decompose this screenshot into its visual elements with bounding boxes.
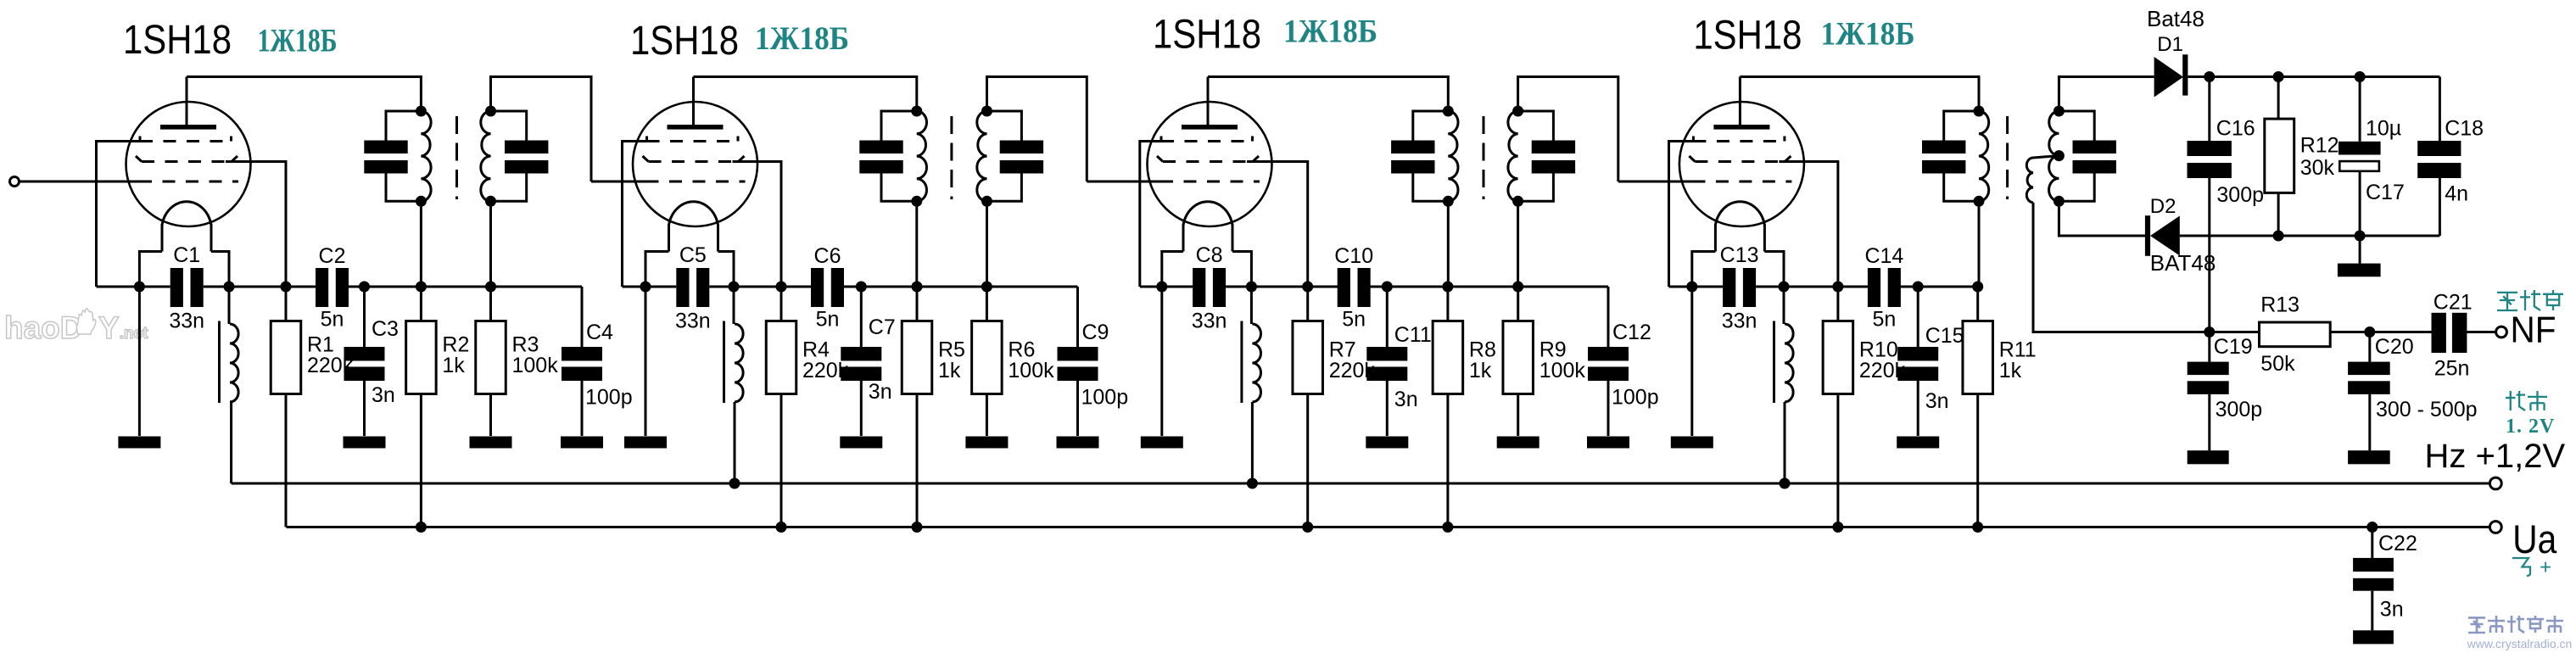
transformer T2 secondary winding bbox=[977, 111, 987, 201]
capacitor C5 (filament bypass) bbox=[676, 268, 689, 307]
svg-text:C22: C22 bbox=[2378, 532, 2417, 555]
label to-AF (Chinese) teal bbox=[2497, 293, 2517, 310]
svg-text:1Ж18Б: 1Ж18Б bbox=[258, 23, 338, 59]
svg-text:4n: 4n bbox=[2445, 182, 2468, 206]
svg-text:C6: C6 bbox=[814, 244, 841, 268]
svg-text:Hz +1,2V: Hz +1,2V bbox=[2425, 438, 2566, 475]
wire C17 node to ground bbox=[2359, 236, 2361, 264]
ground at C8 left node bbox=[1141, 437, 1183, 449]
svg-text:C16: C16 bbox=[2216, 116, 2255, 140]
svg-text:33n: 33n bbox=[675, 310, 711, 333]
svg-text:C2: C2 bbox=[319, 244, 346, 268]
resistor R8 1k bbox=[1433, 321, 1463, 394]
wire plate V3 to T3 primary top bbox=[1208, 77, 1448, 112]
wire filament left leg V2 bbox=[645, 252, 669, 287]
wire R11 bottom to Ua rail bbox=[1976, 394, 1979, 527]
wire filament right leg V3 bbox=[1232, 252, 1251, 287]
capacitor C1 (filament bypass) bbox=[170, 268, 183, 307]
ground below C9 bbox=[1057, 437, 1099, 449]
wire g2 of V2 down to grid-leak node bbox=[733, 162, 782, 287]
svg-text:D1: D1 bbox=[2157, 33, 2183, 56]
tube V4 1SH18 envelope bbox=[1679, 102, 1804, 226]
svg-text:C10: C10 bbox=[1334, 244, 1373, 268]
junction dots T4 bbox=[1974, 106, 1985, 117]
capacitor C16 300p bbox=[2208, 77, 2210, 142]
svg-text:haoD: haoD bbox=[4, 310, 83, 345]
svg-text:220k: 220k bbox=[802, 359, 849, 382]
transformer T1 secondary tuning capacitor bbox=[491, 111, 527, 141]
wire plate V2 to T2 primary top bbox=[694, 77, 917, 112]
junction dots detector bbox=[2204, 71, 2215, 82]
capacitor C6 (coupling 5n) bbox=[811, 268, 824, 307]
svg-text:1Ж18Б: 1Ж18Б bbox=[1821, 15, 1915, 52]
wire plate V1 to T1 primary top bbox=[187, 77, 421, 112]
capacitor C17 10u electrolytic bbox=[2359, 77, 2361, 142]
svg-text:1SH18: 1SH18 bbox=[1693, 12, 1802, 58]
wire g1 of V4 to cathode rail bbox=[1669, 142, 1700, 287]
resistor R4 220k bbox=[766, 321, 796, 394]
resistor R12 30k bbox=[2265, 119, 2294, 193]
svg-text:1SH18: 1SH18 bbox=[1153, 11, 1261, 57]
tube V2 anode (plate) bbox=[668, 125, 724, 130]
diode D1 Bat48 bbox=[2154, 57, 2183, 98]
svg-text:D2: D2 bbox=[2150, 195, 2176, 218]
ground below C17 bbox=[2338, 264, 2381, 277]
svg-text:50k: 50k bbox=[2260, 352, 2295, 376]
wire filament left leg V3 bbox=[1162, 252, 1183, 287]
junction dots T3 bbox=[1443, 106, 1454, 117]
svg-text:C7: C7 bbox=[869, 315, 896, 339]
wire g3 input of V3 bbox=[1087, 181, 1160, 183]
wire T1 primary bottom bbox=[420, 201, 422, 287]
transformer T3 secondary tuning capacitor bbox=[1518, 111, 1554, 141]
tube V3 grid g1 (dashed) bbox=[1161, 140, 1253, 142]
svg-text:1k: 1k bbox=[938, 359, 961, 382]
svg-text:5n: 5n bbox=[1342, 308, 1366, 332]
svg-text:C20: C20 bbox=[2375, 335, 2414, 359]
wire g2 of V4 down to grid-leak node bbox=[1779, 162, 1838, 287]
svg-text:+: + bbox=[2540, 556, 2551, 579]
transformer T2 core bbox=[950, 116, 953, 199]
svg-text:220k: 220k bbox=[1329, 359, 1376, 382]
svg-text:C19: C19 bbox=[2214, 335, 2253, 359]
wire T1 secondary bottom bbox=[489, 201, 492, 287]
wire filament right leg V2 bbox=[718, 252, 735, 287]
wire choke L4 to Hz rail bbox=[1784, 402, 1786, 483]
wire dot1 to ground stage 4 bbox=[1690, 287, 1693, 436]
resistor R3 100k bbox=[476, 321, 506, 394]
svg-text:220k: 220k bbox=[1859, 359, 1906, 382]
tube V1 grid g1 (dashed) bbox=[140, 140, 232, 142]
svg-text:R12: R12 bbox=[2300, 134, 2339, 158]
transformer T2 primary winding bbox=[917, 111, 927, 201]
svg-text:1SH18: 1SH18 bbox=[123, 17, 232, 63]
wire D2 anode to detector bottom rail bbox=[2180, 235, 2440, 237]
transformer T3 secondary winding bbox=[1508, 111, 1518, 201]
filament choke L3 bbox=[1250, 287, 1253, 324]
svg-text:100k: 100k bbox=[512, 354, 559, 377]
wire g3 input of V2 bbox=[591, 181, 646, 183]
svg-text:C17: C17 bbox=[2366, 181, 2405, 204]
wire cathode/B+ rail stage 3 bbox=[1140, 286, 1193, 288]
capacitor C4 100p bbox=[581, 287, 584, 347]
tube V3 grid g3 (dashed) bbox=[1160, 181, 1260, 183]
tube V3 plate lead bbox=[1207, 77, 1210, 127]
svg-text:1. 2V: 1. 2V bbox=[2506, 416, 2555, 438]
tube V1 grid g3 (dashed) bbox=[139, 181, 238, 183]
wire g2 of V3 down to grid-leak node bbox=[1247, 162, 1308, 287]
transformer T4 secondary tuning capacitor bbox=[2059, 111, 2094, 141]
ground below C3 bbox=[344, 437, 386, 449]
capacitor C21 25n bbox=[2370, 331, 2432, 333]
filament choke L2 bbox=[733, 287, 735, 324]
svg-text:5n: 5n bbox=[816, 308, 840, 332]
wire cathode/B+ rail stage 4 bbox=[1669, 286, 1724, 288]
svg-text:C9: C9 bbox=[1082, 321, 1109, 344]
svg-text:C15: C15 bbox=[1925, 324, 1964, 348]
tube V3 grid g2 (dashed) bbox=[1163, 160, 1253, 163]
capacitor C20 300-500p bbox=[2368, 332, 2371, 362]
wire T3 primary bottom bbox=[1447, 201, 1450, 287]
ground below C11 bbox=[1366, 437, 1408, 449]
transformer T4 secondary winding (tapped) bbox=[2049, 111, 2059, 156]
junction dot NF node bbox=[2204, 326, 2215, 338]
Hz terminal bbox=[2489, 477, 2501, 489]
tube V2 filament bbox=[669, 202, 718, 226]
svg-text:10µ: 10µ bbox=[2366, 116, 2401, 140]
capacitor C7 3n bbox=[860, 287, 863, 347]
tube V1 filament bbox=[162, 202, 211, 226]
wire T2 primary bottom bbox=[915, 201, 918, 287]
svg-text:30k: 30k bbox=[2300, 156, 2335, 180]
NF output terminal bbox=[2496, 326, 2507, 338]
transformer T1 primary tuning capacitor bbox=[386, 111, 421, 141]
svg-text:C3: C3 bbox=[372, 317, 399, 341]
ground below C15 bbox=[1897, 437, 1939, 449]
wire T3 secondary bottom bbox=[1517, 201, 1519, 287]
capacitor C12 100p bbox=[1607, 287, 1610, 347]
tube V4 grid g2 (dashed) bbox=[1695, 160, 1785, 163]
svg-text:Ua: Ua bbox=[2512, 516, 2557, 561]
tube V3 anode (plate) bbox=[1182, 125, 1238, 130]
transformer T4 core bbox=[2006, 116, 2009, 199]
tube V1 grid g2 (dashed) bbox=[142, 160, 232, 163]
transformer T1 core bbox=[455, 116, 458, 199]
junction dots stage 2 bbox=[640, 282, 651, 293]
wire T2 secondary bottom bbox=[986, 201, 988, 287]
tube V3 1SH18 envelope bbox=[1148, 102, 1272, 226]
tube V4 plate lead bbox=[1739, 77, 1741, 127]
label yi+ (Chinese) teal bbox=[2512, 558, 2530, 576]
junction dots stage 1 bbox=[134, 282, 145, 293]
wire R7 bottom to Ua rail bbox=[1306, 394, 1309, 527]
watermark crystalradio (decorative) bbox=[2468, 617, 2485, 633]
Ua terminal bbox=[2489, 522, 2501, 533]
wire filament left leg V4 bbox=[1692, 252, 1716, 287]
transformer T1 primary winding bbox=[421, 111, 431, 201]
wire cathode/B+ rail stage 1 bbox=[97, 286, 170, 288]
ground at C13 left node bbox=[1671, 437, 1713, 449]
resistor R5 1k bbox=[902, 321, 932, 394]
wire filament right leg V4 bbox=[1764, 252, 1784, 287]
svg-text:1SH18: 1SH18 bbox=[630, 18, 739, 64]
resistor R13 50k bbox=[2260, 322, 2331, 347]
svg-text:C12: C12 bbox=[1612, 321, 1651, 344]
svg-text:Bat48: Bat48 bbox=[2147, 6, 2204, 31]
svg-text:5n: 5n bbox=[321, 308, 344, 332]
wire dot1 to ground stage 1 bbox=[138, 287, 141, 436]
resistor R2 1k bbox=[406, 321, 437, 394]
junction dots stage 3 bbox=[1156, 282, 1167, 293]
tube V2 grid g3 (dashed) bbox=[646, 181, 746, 183]
tube V3 filament bbox=[1183, 202, 1232, 226]
wire dot1 to ground stage 3 bbox=[1160, 287, 1163, 436]
tube V2 plate lead bbox=[692, 77, 695, 127]
resistor R6 100k bbox=[972, 321, 1003, 394]
svg-text:25n: 25n bbox=[2434, 357, 2470, 381]
svg-text:1k: 1k bbox=[1469, 359, 1492, 382]
tube V4 grid g3 (dashed) bbox=[1692, 181, 1791, 183]
transformer T4 primary winding bbox=[1979, 111, 1989, 201]
ground below C20 bbox=[2348, 450, 2390, 464]
coupling winding to AF bbox=[2033, 156, 2059, 158]
wire T2 secondary top to next grid bbox=[987, 77, 1087, 182]
svg-text:3n: 3n bbox=[1925, 389, 1949, 413]
svg-text:3n: 3n bbox=[869, 380, 892, 404]
tube V4 grid g1 (dashed) bbox=[1693, 140, 1785, 142]
svg-text:300 - 500p: 300 - 500p bbox=[2376, 398, 2478, 421]
wire plate V4 to T4 primary top bbox=[1740, 77, 1979, 112]
capacitor C2 (coupling 5n) bbox=[316, 268, 328, 307]
wire g3 input of V4 bbox=[1618, 181, 1693, 183]
svg-text:1k: 1k bbox=[1999, 359, 2022, 382]
wire T4 secondary bottom to D2 bbox=[2059, 201, 2145, 236]
ground below R6 bbox=[965, 437, 1008, 449]
wire R4 bottom to Ua rail bbox=[780, 394, 783, 527]
capacitor C13 (filament bypass) bbox=[1723, 268, 1735, 307]
tube V2 grid g1 (dashed) bbox=[647, 140, 739, 142]
svg-text:100p: 100p bbox=[1081, 386, 1129, 410]
capacitor C18 4n bbox=[2439, 77, 2441, 142]
wire D1 cathode to detector top rail bbox=[2188, 75, 2439, 78]
ground below C19 bbox=[2188, 450, 2229, 464]
label heater (Chinese) teal bbox=[2506, 391, 2525, 410]
svg-text:C4: C4 bbox=[586, 321, 613, 344]
svg-text:3n: 3n bbox=[2380, 598, 2404, 622]
wire Hz +1.2V rail bbox=[232, 483, 2490, 485]
transformer T2 secondary tuning capacitor bbox=[987, 111, 1022, 141]
resistor R7 220k bbox=[1293, 321, 1323, 394]
wire Ua rail bbox=[287, 526, 2490, 528]
wire g1 of V2 to cathode rail bbox=[623, 142, 653, 287]
ground below C12 bbox=[1587, 437, 1629, 449]
input terminal bbox=[10, 177, 20, 187]
ground at C5 left node bbox=[624, 437, 667, 449]
capacitor C9 100p bbox=[1076, 287, 1079, 347]
wire T1 secondary top to next grid bbox=[491, 77, 592, 182]
wire R1 bottom to Ua rail bbox=[285, 394, 288, 527]
wire R8 bottom to Ua rail bbox=[1446, 394, 1449, 527]
wire cathode/B+ rail stage 2 bbox=[623, 286, 677, 288]
wire dot1 to ground stage 2 bbox=[645, 287, 647, 436]
resistor R9 100k bbox=[1503, 321, 1534, 394]
svg-text:C5: C5 bbox=[679, 243, 707, 267]
tube V1 plate lead bbox=[186, 77, 188, 127]
capacitor C11 3n bbox=[1386, 287, 1389, 347]
capacitor C3 3n bbox=[363, 287, 366, 347]
tube V1 1SH18 envelope bbox=[126, 102, 251, 226]
svg-text:1k: 1k bbox=[442, 354, 465, 377]
diode D2 BAT48 bbox=[2145, 215, 2150, 256]
svg-text:100k: 100k bbox=[1008, 359, 1054, 382]
ground below R9 bbox=[1497, 437, 1539, 449]
ground below C22 bbox=[2353, 630, 2394, 644]
tube V1 anode (plate) bbox=[160, 125, 216, 130]
wire choke L2 to Hz rail bbox=[734, 402, 736, 483]
capacitor C22 3n bbox=[2366, 522, 2378, 533]
wire g2 of V1 down to grid-leak node bbox=[226, 162, 286, 287]
svg-text:1Ж18Б: 1Ж18Б bbox=[755, 20, 849, 57]
tube V2 grid g2 (dashed) bbox=[649, 160, 739, 163]
ground below C7 bbox=[840, 437, 882, 449]
svg-text:C8: C8 bbox=[1196, 243, 1223, 267]
wire g1 of V3 to cathode rail bbox=[1140, 142, 1167, 287]
junction dots T2 bbox=[911, 106, 922, 117]
wire filament left leg V1 bbox=[139, 252, 162, 287]
capacitor C15 3n bbox=[1917, 287, 1919, 347]
wire T3 secondary top to next grid bbox=[1518, 77, 1618, 182]
resistor R11 1k bbox=[1963, 321, 1993, 394]
wire R2 bottom to Ua rail bbox=[420, 394, 422, 527]
svg-text:33n: 33n bbox=[169, 310, 204, 333]
svg-text:100p: 100p bbox=[1612, 386, 1659, 410]
svg-text:3n: 3n bbox=[372, 383, 395, 407]
capacitor C14 (coupling 5n) bbox=[1868, 268, 1880, 307]
transformer T3 primary tuning capacitor bbox=[1413, 111, 1449, 141]
ground below R3 bbox=[470, 437, 512, 449]
capacitor C19 300p bbox=[2208, 332, 2210, 362]
svg-text:5n: 5n bbox=[1872, 308, 1896, 332]
wire g3 input of V1 bbox=[20, 181, 140, 183]
tube V4 filament bbox=[1715, 202, 1764, 226]
filament choke L4 bbox=[1783, 287, 1785, 324]
wire R10 bottom to Ua rail bbox=[1836, 394, 1839, 527]
svg-text:C11: C11 bbox=[1394, 323, 1432, 347]
transformer T4 primary tuning capacitor bbox=[1944, 111, 1979, 141]
wire R5 bottom to Ua rail bbox=[916, 394, 919, 527]
svg-text:C1: C1 bbox=[173, 243, 200, 267]
junction dots T1 bbox=[416, 106, 427, 117]
transformer T2 primary tuning capacitor bbox=[881, 111, 917, 141]
ground below C4 bbox=[561, 437, 603, 449]
tube V4 anode (plate) bbox=[1713, 125, 1769, 130]
wire coupling winding to NF node bbox=[2033, 203, 2210, 332]
capacitor C8 (filament bypass) bbox=[1193, 268, 1205, 307]
svg-text:220k: 220k bbox=[307, 354, 354, 377]
svg-text:C21: C21 bbox=[2434, 291, 2473, 315]
svg-text:NF: NF bbox=[2511, 310, 2556, 351]
svg-text:BAT48: BAT48 bbox=[2150, 250, 2216, 276]
wire choke L1 to Hz rail bbox=[230, 402, 232, 483]
svg-text:R13: R13 bbox=[2260, 293, 2299, 317]
svg-text:www.crystalradio.cn: www.crystalradio.cn bbox=[2467, 637, 2573, 650]
svg-text:33n: 33n bbox=[1722, 310, 1757, 333]
svg-text:100k: 100k bbox=[1539, 359, 1586, 382]
svg-text:1Ж18Б: 1Ж18Б bbox=[1283, 14, 1377, 50]
tube V2 1SH18 envelope bbox=[633, 102, 757, 226]
svg-text:C18: C18 bbox=[2445, 116, 2484, 140]
svg-text:C14: C14 bbox=[1864, 244, 1903, 268]
svg-text:300p: 300p bbox=[2216, 398, 2263, 421]
wire filament right leg V1 bbox=[211, 252, 229, 287]
junction dots stage 4 bbox=[1686, 282, 1697, 293]
svg-text:33n: 33n bbox=[1192, 310, 1227, 333]
transformer T1 secondary winding bbox=[481, 111, 491, 201]
svg-text:100p: 100p bbox=[585, 386, 633, 410]
filament choke L1 bbox=[228, 287, 231, 324]
transformer T3 primary winding bbox=[1448, 111, 1458, 201]
svg-text:C13: C13 bbox=[1720, 243, 1759, 267]
capacitor C10 (coupling 5n) bbox=[1338, 268, 1350, 307]
svg-text:3n: 3n bbox=[1394, 388, 1418, 411]
transformer T3 core bbox=[1483, 116, 1485, 199]
wire g1 of V1 to cathode rail bbox=[97, 142, 147, 287]
svg-text:300p: 300p bbox=[2216, 183, 2264, 207]
wire T4 primary bottom bbox=[1978, 201, 1981, 287]
resistor R1 220k bbox=[271, 321, 301, 394]
ground at C1 left node bbox=[118, 437, 160, 449]
wire T4 secondary top to D1 bbox=[2059, 77, 2154, 112]
resistor R10 220k bbox=[1823, 321, 1853, 394]
wire choke L3 to Hz rail bbox=[1251, 402, 1254, 483]
